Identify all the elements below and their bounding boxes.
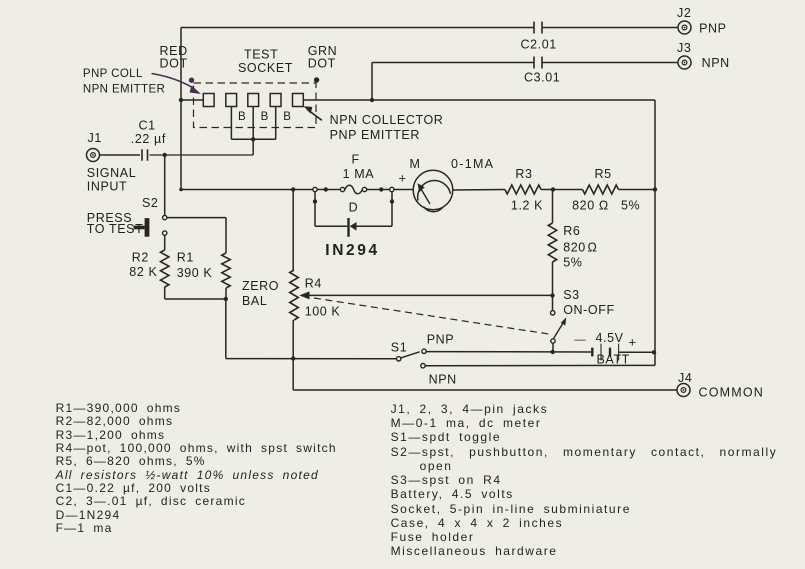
svg-text:IN294: IN294 — [325, 242, 379, 259]
wire: S2 bottom to R2 — [164, 235, 166, 250]
svg-text:R5: R5 — [595, 167, 612, 181]
wire: R5 to right bus — [619, 189, 656, 191]
wire: right bus down to NPN wire — [654, 352, 656, 365]
junction: R3/R5/R6 node — [551, 187, 555, 191]
pushbutton S2 plunger — [145, 218, 150, 237]
wire: base bus to C1 node — [252, 139, 254, 155]
pin jack J2 — [678, 21, 691, 34]
diode D 1N294 — [347, 218, 349, 237]
wire: right bus vertical — [654, 100, 656, 352]
switch S1 common + blade — [397, 357, 401, 361]
wire: PNP contact to battery — [426, 351, 591, 353]
svg-text:J2: J2 — [677, 6, 691, 20]
svg-text:R3: R3 — [515, 167, 532, 181]
svg-text:SIGNAL: SIGNAL — [87, 166, 136, 180]
junction: fuse left — [324, 187, 328, 191]
switch S1 NPN contact — [421, 364, 425, 368]
junction dot right — [390, 199, 394, 203]
mechanical link R4 to S3 (dashed) — [314, 298, 549, 334]
wire: diode branch left — [315, 225, 347, 227]
wire: diode branch right — [357, 225, 393, 227]
wire: R6 to wiper node — [552, 262, 554, 296]
pin jack J3 — [678, 56, 691, 69]
junction: R1 bottom — [224, 297, 228, 301]
capacitor C2 — [533, 22, 535, 34]
meter M 0-1MA — [413, 170, 453, 210]
junction dot left — [313, 199, 317, 203]
svg-text:M: M — [410, 157, 421, 171]
legend left column — [56, 402, 337, 535]
svg-text:R6: R6 — [563, 224, 580, 238]
annotation arrow to pin 5 — [308, 110, 322, 121]
wire: base bus — [231, 138, 275, 140]
wire: bottom rail to S1 common — [226, 358, 397, 360]
svg-text:820 Ω: 820 Ω — [563, 240, 597, 254]
svg-text:82 K: 82 K — [129, 265, 157, 279]
capacitor C3 — [533, 57, 535, 69]
svg-text:S2: S2 — [142, 196, 159, 210]
resistor R1 — [222, 253, 230, 288]
wire: R1 bottom — [225, 288, 227, 299]
junction: base bus center — [251, 137, 255, 141]
wire: base pin 4 drop — [275, 107, 277, 140]
svg-text:PNP: PNP — [427, 332, 455, 346]
svg-text:PNP COLL: PNP COLL — [83, 68, 143, 80]
svg-text:ON-OFF: ON-OFF — [563, 303, 615, 317]
svg-text:NPN: NPN — [429, 373, 457, 387]
svg-text:390 K: 390 K — [177, 266, 213, 280]
fuse holder terminal right — [390, 187, 394, 191]
resistor R2 — [161, 250, 169, 287]
wire: fuse right terminal drop — [391, 192, 393, 227]
wire: S2 top to R1 top — [167, 217, 226, 219]
wire: fuse left terminal drop — [314, 192, 316, 227]
junction: left bus to socket pin 1 — [179, 98, 183, 102]
svg-text:B: B — [283, 111, 291, 123]
socket pin 5 — [293, 94, 304, 107]
svg-text:R1: R1 — [177, 251, 194, 265]
svg-text:DOT: DOT — [160, 57, 188, 71]
wire: J1 to C1 — [99, 154, 140, 156]
svg-text:820 Ω 5%: 820 Ω 5% — [572, 199, 640, 213]
junction: battery plus / right bus — [652, 350, 656, 354]
svg-text:C1: C1 — [139, 119, 156, 133]
wire: base pin 2 drop — [230, 107, 232, 140]
svg-text:S3: S3 — [563, 288, 580, 302]
svg-text:J3: J3 — [677, 41, 691, 55]
switch S1 PNP contact — [422, 349, 426, 353]
wire: R2 bottom — [164, 287, 166, 299]
wire: left bus (PNP collector / red-dot pin) vertical — [180, 28, 182, 190]
annotation arrow to pin 1 — [152, 74, 195, 89]
resistor R6 — [548, 223, 556, 262]
wire: C1 node down to S2 — [164, 155, 166, 215]
svg-text:J4: J4 — [678, 371, 692, 385]
svg-text:J1: J1 — [88, 131, 102, 145]
svg-text:COMMON: COMMON — [699, 385, 765, 399]
green dot marker — [314, 77, 319, 82]
socket pin 4 — [270, 94, 281, 107]
wire: to socket pin 1 — [181, 99, 203, 101]
junction: rail / common drop — [291, 356, 295, 360]
wire: C3 to J3 — [542, 62, 679, 64]
svg-text:C2.01: C2.01 — [521, 38, 557, 52]
wire: node to S3 — [552, 296, 554, 311]
junction: C1 / S2 branch — [163, 153, 167, 157]
svg-text:100 K: 100 K — [305, 305, 341, 319]
switch S3 top contact — [551, 311, 555, 315]
socket pin 2 — [226, 94, 237, 107]
junction: fuse right — [379, 187, 383, 191]
R4 wiper arrow and wire to R6 node — [308, 294, 553, 296]
wire: base pin 3 drop — [252, 107, 254, 140]
svg-text:B: B — [261, 111, 269, 123]
wire: meter to R3 — [453, 189, 505, 192]
resistor R5 — [583, 185, 619, 194]
svg-text:PNP EMITTER: PNP EMITTER — [330, 128, 420, 142]
svg-text:0-1MA: 0-1MA — [451, 157, 494, 171]
test socket outline (dashed) — [194, 83, 317, 128]
junction: R4 top tap — [291, 187, 295, 191]
wire: C2 to J2 — [542, 27, 679, 29]
battery BATT 4.5V — [591, 348, 593, 357]
wire: R4 bottom through rail to common — [292, 320, 294, 390]
svg-text:D: D — [349, 200, 359, 214]
svg-text:—: — — [575, 334, 587, 346]
svg-text:1 MA: 1 MA — [343, 167, 375, 181]
wire: PNP collector node to C2 — [181, 27, 534, 29]
svg-text:INPUT: INPUT — [87, 180, 128, 194]
capacitor C1 — [141, 149, 143, 160]
svg-text:1.2 K: 1.2 K — [511, 199, 543, 213]
svg-text:+: + — [399, 171, 407, 186]
legend right column — [391, 402, 778, 559]
svg-text:5%: 5% — [563, 255, 582, 269]
wire: node to R6 — [552, 190, 554, 224]
svg-text:F: F — [352, 152, 360, 166]
potentiometer R4 — [290, 270, 299, 320]
wire: R1/R2 bottom link — [165, 298, 226, 300]
svg-text:+: + — [629, 335, 637, 350]
wire — [317, 189, 340, 191]
fuse F — [340, 187, 344, 191]
svg-text:NPN EMITTER: NPN EMITTER — [83, 84, 165, 96]
svg-text:B: B — [238, 111, 246, 123]
wire: to meter — [394, 189, 414, 191]
svg-text:BAL: BAL — [242, 294, 267, 308]
pin jack J1 — [87, 149, 100, 162]
switch S3 blade — [553, 322, 563, 339]
wire: R4 top to meter row — [292, 190, 294, 271]
svg-text:R4: R4 — [305, 277, 322, 291]
wire: socket pin 5 to right bus — [303, 99, 655, 101]
wire: C1 to base bus node — [150, 154, 254, 156]
svg-text:BATT: BATT — [597, 353, 630, 367]
wire — [367, 189, 390, 191]
svg-text:.22 µf: .22 µf — [131, 132, 166, 146]
resistor R3 — [505, 185, 541, 194]
svg-text:4.5V: 4.5V — [596, 331, 624, 345]
svg-text:PNP: PNP — [699, 22, 727, 36]
wire: S3 to battery wire — [552, 343, 554, 352]
svg-text:DOT: DOT — [308, 57, 336, 71]
wire: NPN collector node riser to C3 row — [371, 63, 373, 101]
wire: common line to J4 — [293, 389, 677, 391]
pushbutton S2 bottom contact — [163, 231, 167, 235]
svg-text:SOCKET: SOCKET — [238, 61, 293, 75]
svg-text:NPN: NPN — [702, 56, 730, 70]
svg-text:NPN COLLECTOR: NPN COLLECTOR — [330, 113, 444, 127]
junction: wiper / R6 / S3 — [550, 293, 554, 297]
svg-text:TO TEST: TO TEST — [87, 222, 144, 236]
pin jack J4 — [677, 384, 690, 397]
red dot marker — [189, 78, 194, 83]
socket pin 3 — [248, 94, 259, 107]
svg-text:ZERO: ZERO — [242, 279, 279, 293]
junction: pin5 wire / C3 riser — [370, 98, 374, 102]
svg-text:TEST: TEST — [244, 48, 278, 62]
junction: S3 / battery wire — [551, 350, 555, 354]
junction: right bus / R5 — [653, 187, 657, 191]
svg-text:S1: S1 — [391, 341, 408, 355]
switch S3 bottom contact — [551, 339, 555, 343]
wire: R3 to R5 — [541, 189, 583, 191]
pushbutton S2 top contact — [163, 215, 167, 219]
svg-text:R2: R2 — [132, 251, 149, 265]
wire: meter row from left bus — [179, 188, 183, 192]
wire: left rail down — [225, 299, 227, 359]
wire: NPN contact to battery plus — [425, 364, 655, 366]
fuse holder terminal left — [313, 187, 317, 191]
socket pin 1 — [203, 94, 214, 107]
svg-text:C3.01: C3.01 — [524, 70, 560, 84]
